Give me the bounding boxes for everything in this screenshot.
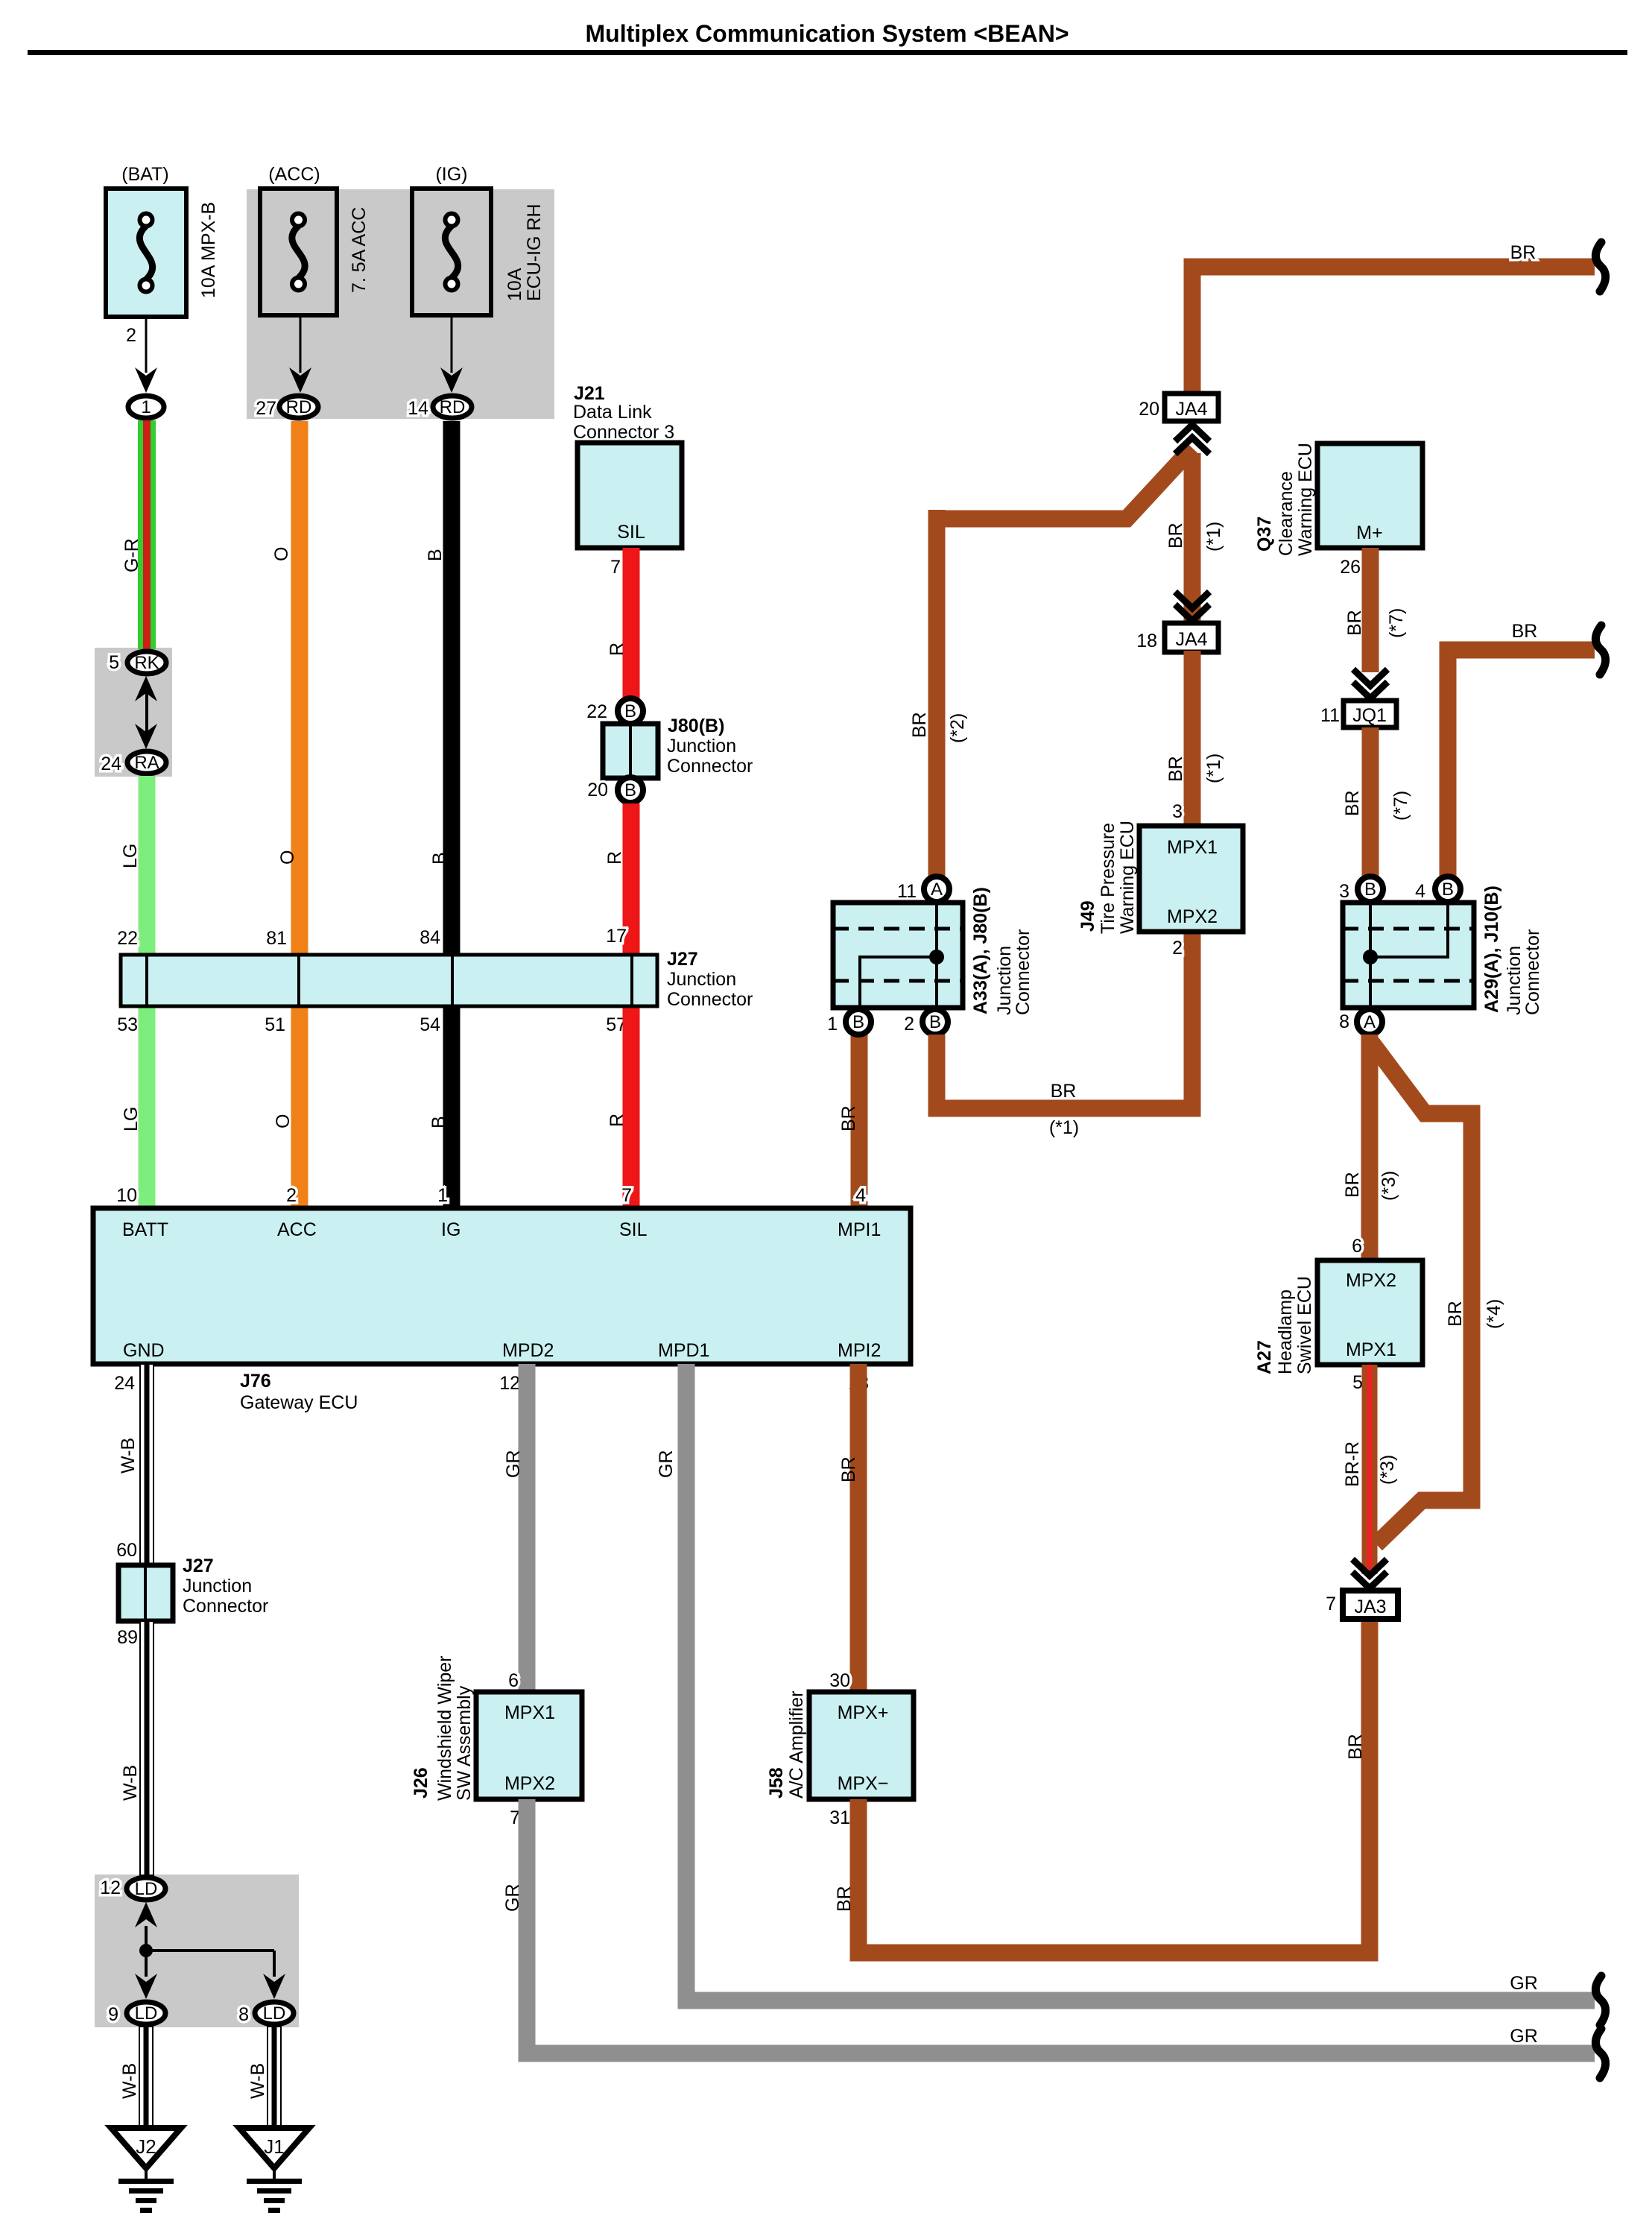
svg-text:GR: GR	[502, 1884, 523, 1913]
svg-text:14: 14	[408, 398, 428, 419]
wire R from SIL	[623, 548, 640, 711]
svg-text:R: R	[607, 1114, 627, 1127]
svg-text:O: O	[273, 1114, 294, 1128]
svg-text:BR: BR	[909, 712, 930, 738]
svg-text:B: B	[1442, 879, 1454, 900]
svg-text:LD: LD	[263, 2003, 286, 2024]
svg-text:10A MPX-B: 10A MPX-B	[198, 202, 219, 298]
svg-text:18: 18	[1136, 631, 1157, 651]
wire BR top horizontal	[1192, 267, 1595, 394]
ECU box J58 A/C Amplifier	[809, 1692, 914, 1799]
svg-text:24: 24	[101, 754, 121, 774]
svg-text:R: R	[607, 642, 627, 656]
svg-text:12: 12	[100, 1877, 121, 1898]
svg-text:22: 22	[586, 701, 607, 722]
arrow link RK to RA	[145, 689, 148, 734]
svg-text:89: 89	[117, 1627, 138, 1648]
svg-text:8: 8	[238, 2004, 249, 2025]
svg-text:RD: RD	[286, 397, 312, 417]
svg-text:7. 5A ACC: 7. 5A ACC	[349, 207, 370, 293]
svg-text:B: B	[624, 780, 636, 800]
svg-text:Connector: Connector	[667, 989, 753, 1010]
svg-text:JA3: JA3	[1354, 1597, 1386, 1617]
svg-text:B: B	[425, 549, 446, 561]
break squiggle GR1	[1595, 1976, 1605, 2025]
lead from IG fuse to connector RD	[451, 315, 453, 373]
wire R lower segment	[623, 1006, 640, 1208]
connector JA4 (18) box	[1165, 623, 1218, 652]
svg-text:31: 31	[829, 1807, 850, 1828]
svg-text:A29(A), J10(B): A29(A), J10(B)	[1481, 885, 1502, 1013]
svg-text:17: 17	[606, 926, 627, 947]
lead from BAT fuse to connector 1	[145, 317, 148, 373]
svg-text:MPX2: MPX2	[1346, 1270, 1396, 1291]
svg-text:J27: J27	[667, 949, 698, 970]
svg-text:12: 12	[499, 1373, 520, 1394]
wire W-B gateway to J27 connector	[140, 1364, 154, 1565]
wire B (black) vertical	[443, 421, 461, 955]
wire BR gateway MPI2 to J58	[850, 1364, 867, 1692]
svg-text:(*7): (*7)	[1390, 791, 1411, 821]
svg-text:MPD2: MPD2	[502, 1340, 554, 1361]
wire W-B to ground J2	[139, 2027, 153, 2126]
svg-text:J58: J58	[766, 1767, 787, 1798]
svg-text:MPX2: MPX2	[504, 1773, 555, 1794]
left branch to LD 9	[145, 1951, 148, 1977]
svg-text:Connector: Connector	[667, 756, 753, 777]
svg-text:GR: GR	[1510, 2026, 1538, 2047]
svg-text:Junction: Junction	[667, 736, 736, 757]
svg-text:G-R: G-R	[121, 538, 142, 572]
wire R middle segment	[623, 803, 640, 955]
wire O lower segment	[291, 1006, 308, 1208]
svg-text:B: B	[428, 1116, 449, 1128]
svg-text:Q37: Q37	[1254, 517, 1275, 552]
svg-text:LD: LD	[135, 1879, 158, 1899]
svg-text:6: 6	[1352, 1236, 1362, 1257]
svg-text:Multiplex Communication System: Multiplex Communication System <BEAN>	[585, 20, 1069, 47]
connector oval RK	[127, 651, 166, 674]
svg-text:3: 3	[1339, 881, 1349, 902]
svg-text:11: 11	[897, 881, 917, 902]
wire BR branch diagonal to the right (*4)	[1372, 1043, 1472, 1544]
ground symbol J1	[239, 2128, 309, 2168]
wire B lower segment	[443, 1006, 461, 1208]
svg-text:A: A	[931, 879, 943, 900]
svg-text:7: 7	[1326, 1594, 1336, 1614]
svg-text:53: 53	[117, 1014, 138, 1035]
svg-text:(*2): (*2)	[947, 713, 968, 743]
arrow into LD top	[135, 1902, 157, 1927]
svg-text:10: 10	[116, 1185, 137, 1206]
wire BR (*2) from JA4 junction down to A33 pin 11	[937, 448, 1192, 879]
wire O (orange) vertical	[291, 421, 308, 955]
svg-text:24: 24	[114, 1373, 135, 1394]
svg-text:11: 11	[1320, 705, 1340, 726]
junction connector box A33(A) J80(B)	[833, 903, 963, 1008]
svg-text:JA4: JA4	[1175, 629, 1207, 650]
wire W-B J27 to LD	[140, 1621, 154, 1875]
svg-text:ACC: ACC	[277, 1219, 317, 1240]
svg-text:(BAT): (BAT)	[121, 164, 168, 185]
svg-text:LG: LG	[120, 844, 141, 868]
svg-text:Data Link: Data Link	[573, 402, 652, 423]
svg-text:B: B	[624, 701, 636, 721]
svg-text:A33(A), J80(B): A33(A), J80(B)	[970, 887, 991, 1014]
svg-text:BR: BR	[1051, 1081, 1077, 1102]
wire BR right horizontal	[1448, 650, 1595, 879]
connector oval LD top	[127, 1877, 165, 1900]
svg-text:MPX1: MPX1	[1346, 1339, 1396, 1360]
svg-text:JA4: JA4	[1175, 399, 1207, 420]
svg-text:(*1): (*1)	[1049, 1117, 1079, 1138]
svg-text:HeadlampSwivel ECU: HeadlampSwivel ECU	[1275, 1276, 1315, 1374]
svg-text:5: 5	[1352, 1372, 1363, 1393]
svg-text:M+: M+	[1356, 522, 1382, 543]
svg-text:(*3): (*3)	[1379, 1171, 1399, 1201]
svg-text:54: 54	[420, 1014, 440, 1035]
svg-text:(*7): (*7)	[1386, 608, 1407, 638]
svg-text:A: A	[1364, 1012, 1376, 1032]
svg-text:GND: GND	[123, 1340, 165, 1361]
svg-text:B: B	[852, 1012, 864, 1032]
svg-text:BR: BR	[1342, 790, 1363, 816]
svg-text:LG: LG	[121, 1107, 142, 1131]
wire W-B to ground J1	[268, 2027, 281, 2126]
svg-text:MPX+: MPX+	[838, 1702, 889, 1723]
wire BR (*7) from Q37 M+	[1362, 548, 1379, 672]
svg-text:22: 22	[117, 928, 138, 949]
svg-text:81: 81	[266, 928, 287, 949]
svg-text:20: 20	[1139, 399, 1159, 420]
svg-text:BATT: BATT	[122, 1219, 168, 1240]
svg-text:BR: BR	[1345, 1734, 1366, 1760]
connector JA3 box	[1343, 1591, 1398, 1619]
wire LG upper segment	[139, 776, 156, 955]
svg-text:Junction: Junction	[183, 1576, 252, 1597]
title underline	[28, 50, 1627, 55]
arrow chevrons into JA3	[1352, 1559, 1387, 1576]
connector oval LD left	[127, 2002, 165, 2024]
svg-text:J80(B): J80(B)	[668, 716, 724, 736]
wire GR J26 down to bottom corner	[527, 1799, 1595, 2053]
arrow chevrons into JA4 18	[1175, 592, 1209, 608]
svg-text:Connector 3: Connector 3	[573, 422, 674, 443]
right branch to LD 8	[273, 1951, 276, 1977]
svg-text:3: 3	[1172, 801, 1183, 822]
svg-text:BR: BR	[1165, 522, 1186, 549]
svg-text:RK: RK	[134, 653, 159, 673]
wire LG lower segment	[139, 1006, 156, 1208]
svg-text:7: 7	[610, 557, 621, 578]
junction connector box A29(A) J10(B)	[1343, 903, 1474, 1008]
svg-text:BR: BR	[1512, 621, 1538, 642]
svg-text:Tire PressureWarning ECU: Tire PressureWarning ECU	[1098, 821, 1138, 934]
connector oval LD right	[255, 2002, 294, 2024]
svg-text:J26: J26	[411, 1767, 431, 1798]
svg-text:A27: A27	[1254, 1340, 1275, 1374]
svg-text:4: 4	[855, 1185, 866, 1206]
ECU box J76 Gateway ECU	[93, 1208, 911, 1364]
svg-text:(*4): (*4)	[1484, 1299, 1504, 1329]
junction connector J27 small box	[118, 1565, 173, 1621]
svg-text:J49: J49	[1077, 900, 1098, 932]
connector oval RD (ACC)	[279, 396, 318, 418]
wire GR gateway MPD1 down	[686, 1364, 1595, 2000]
svg-text:BR: BR	[834, 1886, 855, 1912]
svg-text:SIL: SIL	[619, 1219, 648, 1240]
svg-text:BR: BR	[1165, 756, 1186, 782]
wire BR-R from A27 MPX1	[1362, 1365, 1378, 1574]
ECU box Q37 Clearance Warning ECU	[1317, 443, 1422, 548]
lead from ACC fuse to connector RD	[300, 315, 302, 373]
svg-text:W-B: W-B	[119, 2063, 140, 2099]
svg-text:MPI1: MPI1	[838, 1219, 881, 1240]
wire BR from A33 pin B1 to gateway MPI1	[851, 1035, 868, 1208]
fuse 10A MPX-B (BAT)	[106, 189, 186, 317]
svg-text:GR: GR	[1510, 1973, 1538, 1994]
gray panel behind ACC and IG fuses	[247, 189, 554, 419]
svg-text:2: 2	[1172, 938, 1183, 958]
svg-text:8: 8	[1339, 1011, 1349, 1032]
svg-text:1: 1	[827, 1014, 838, 1035]
svg-text:RA: RA	[134, 753, 159, 773]
break squiggle BR top	[1595, 242, 1605, 291]
ground link wire horizontal	[146, 1949, 274, 1952]
break squiggle GR2	[1595, 2029, 1605, 2078]
wire G-R vertical	[138, 420, 156, 649]
svg-text:MPX1: MPX1	[504, 1702, 555, 1723]
fuse 10A ECU-IG RH	[412, 189, 491, 315]
svg-text:7: 7	[621, 1185, 632, 1206]
svg-text:W-B: W-B	[247, 2063, 268, 2099]
ECU box J21 SIL	[577, 443, 682, 548]
svg-text:IG: IG	[441, 1219, 461, 1240]
junction connector J27 bar	[121, 955, 657, 1006]
svg-text:27: 27	[256, 398, 276, 419]
ground symbol J2	[111, 2128, 181, 2168]
svg-text:J2: J2	[136, 2135, 156, 2158]
wire BR (*3) A29 pin8 to A27 MPX2	[1361, 1035, 1379, 1260]
svg-text:MPX2: MPX2	[1167, 906, 1218, 927]
svg-text:RD: RD	[440, 397, 466, 417]
svg-text:Connector: Connector	[183, 1596, 268, 1617]
ECU box J26 Windshield Wiper SW Assembly	[476, 1692, 582, 1799]
connector oval RD (IG)	[433, 396, 472, 418]
svg-text:26: 26	[1340, 557, 1361, 578]
svg-text:LD: LD	[135, 2003, 158, 2024]
svg-text:6: 6	[508, 1670, 519, 1691]
svg-text:J21: J21	[574, 383, 605, 404]
svg-text:4: 4	[1415, 881, 1425, 902]
svg-text:J27: J27	[183, 1556, 214, 1576]
svg-text:B: B	[429, 852, 450, 865]
svg-text:B: B	[929, 1012, 941, 1032]
svg-text:1: 1	[141, 397, 151, 417]
arrow chevrons into JA4 20	[1175, 438, 1209, 454]
connector JQ1 box	[1344, 701, 1396, 727]
wire BR (*1) JA4 18 to J49	[1184, 651, 1201, 826]
arrow chevrons into JQ1	[1353, 669, 1387, 686]
svg-text:2: 2	[126, 325, 136, 346]
svg-text:GR: GR	[503, 1450, 524, 1479]
svg-text:5: 5	[109, 652, 119, 673]
svg-text:B: B	[1364, 879, 1376, 900]
svg-text:BR: BR	[1344, 610, 1365, 636]
svg-text:BR: BR	[1342, 1172, 1363, 1198]
wire BR (*1) from A33 B2 down and right to J49	[937, 932, 1192, 1108]
wire BR (*1) vertical JA4 20 to JA4 18	[1184, 453, 1201, 623]
ECU box J49 Tire Pressure Warning ECU	[1139, 826, 1243, 932]
svg-text:(ACC): (ACC)	[268, 164, 320, 185]
svg-text:J76: J76	[240, 1371, 271, 1392]
junction node on ground link	[139, 1944, 153, 1957]
ECU box A27 Headlamp Swivel ECU	[1317, 1260, 1422, 1365]
svg-text:2: 2	[904, 1014, 914, 1035]
connector oval RA	[127, 751, 166, 774]
fuse 7.5A ACC	[260, 189, 337, 315]
svg-text:R: R	[604, 851, 625, 865]
svg-text:O: O	[277, 850, 298, 865]
svg-text:Gateway ECU: Gateway ECU	[240, 1392, 358, 1413]
svg-text:Junction: Junction	[667, 969, 736, 990]
svg-text:BR: BR	[838, 1105, 859, 1131]
connector JA4 (20) box	[1165, 394, 1218, 421]
svg-text:20: 20	[587, 780, 608, 800]
wire BR J58 down to bottom corner	[858, 1619, 1370, 1953]
svg-text:BR: BR	[838, 1456, 859, 1482]
gray panel behind RK RA connectors	[95, 648, 172, 777]
break squiggle BR right	[1595, 625, 1605, 675]
wire BR (*7) JQ1 to A29 pin 3	[1362, 727, 1379, 877]
svg-text:JQ1: JQ1	[1352, 705, 1387, 726]
svg-text:(*3): (*3)	[1377, 1455, 1398, 1485]
svg-text:MPI2: MPI2	[838, 1340, 881, 1361]
junction connector J80(B) box	[603, 724, 658, 778]
svg-text:MPD1: MPD1	[658, 1340, 709, 1361]
svg-text:BR: BR	[1445, 1301, 1466, 1327]
svg-text:MPX−: MPX−	[838, 1773, 889, 1794]
svg-text:(*1): (*1)	[1203, 522, 1224, 552]
svg-text:BR-R: BR-R	[1342, 1441, 1363, 1487]
svg-text:30: 30	[829, 1670, 850, 1691]
svg-text:O: O	[271, 547, 292, 561]
svg-text:A/C Amplifier: A/C Amplifier	[786, 1691, 807, 1798]
svg-text:BR: BR	[1510, 242, 1537, 263]
svg-text:SIL: SIL	[617, 522, 645, 543]
svg-text:GR: GR	[656, 1450, 677, 1479]
wire GR gateway MPD2 to J26	[519, 1364, 536, 1692]
svg-text:51: 51	[265, 1014, 285, 1035]
svg-text:84: 84	[420, 927, 440, 948]
svg-text:9: 9	[108, 2004, 118, 2025]
svg-text:2: 2	[286, 1185, 297, 1206]
gray panel behind LD connectors	[95, 1875, 299, 2027]
svg-text:J1: J1	[264, 2135, 284, 2158]
svg-text:MPX1: MPX1	[1167, 837, 1218, 858]
connector oval 1	[128, 396, 164, 418]
svg-text:60: 60	[116, 1540, 137, 1561]
svg-text:W-B: W-B	[120, 1765, 141, 1801]
svg-text:(*1): (*1)	[1203, 754, 1224, 783]
svg-text:1: 1	[437, 1185, 448, 1206]
svg-text:(IG): (IG)	[435, 164, 467, 185]
svg-text:W-B: W-B	[118, 1438, 139, 1474]
